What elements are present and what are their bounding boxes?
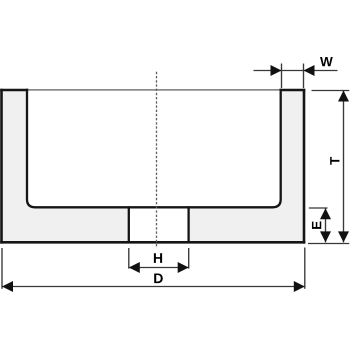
- dimension T top extension line: [312, 90, 350, 92]
- label E: [312, 221, 321, 229]
- dimension D extension line left: [1, 248, 3, 289]
- label D: [154, 273, 163, 283]
- bore left edge: [128, 206, 130, 242]
- label H: [154, 253, 162, 263]
- dimension W extension line right: [303, 64, 305, 89]
- dimension D right arrowhead: [294, 281, 305, 292]
- dimension E line: [325, 208, 327, 242]
- bore right edge: [187, 206, 189, 242]
- outer contour top-right wall segment: [280, 89, 306, 92]
- dimension T and E bottom extension line: [308, 243, 349, 245]
- dimension E top extension line: [309, 207, 328, 209]
- dimension T top arrowhead: [338, 91, 349, 102]
- dimension H left arrowhead: [129, 262, 140, 273]
- dimension T line: [343, 91, 345, 243]
- outer contour bottom edge: [0, 241, 305, 244]
- dimension H right arrowhead: [178, 262, 189, 273]
- dimension D line: [2, 286, 305, 288]
- dimension W right arrowhead: [304, 65, 315, 76]
- vertical dashed centerline: [156, 72, 158, 248]
- dimension H line: [129, 267, 189, 269]
- dimension W extension line left: [281, 64, 283, 89]
- cavity inner contour: [27, 89, 281, 208]
- dimension E down arrowhead: [320, 231, 331, 242]
- label T: [330, 157, 339, 165]
- outer contour left edge: [0, 89, 3, 244]
- top rim thin line across cavity: [27, 89, 281, 91]
- dimension D left arrowhead: [2, 281, 13, 292]
- dimension D extension line right: [304, 248, 306, 289]
- wheel body cross-section fill: [2, 90, 305, 242]
- dimension H extension line left: [128, 248, 130, 269]
- outer contour top-left wall segment: [0, 89, 28, 92]
- dimension W line: [254, 70, 338, 72]
- dimension E up arrowhead: [320, 208, 331, 219]
- dimension W left arrowhead: [271, 65, 282, 76]
- dimension H extension line right: [188, 248, 190, 269]
- dimension T bottom arrowhead: [338, 231, 349, 242]
- outer contour right edge: [303, 89, 306, 244]
- label W: [320, 57, 333, 66]
